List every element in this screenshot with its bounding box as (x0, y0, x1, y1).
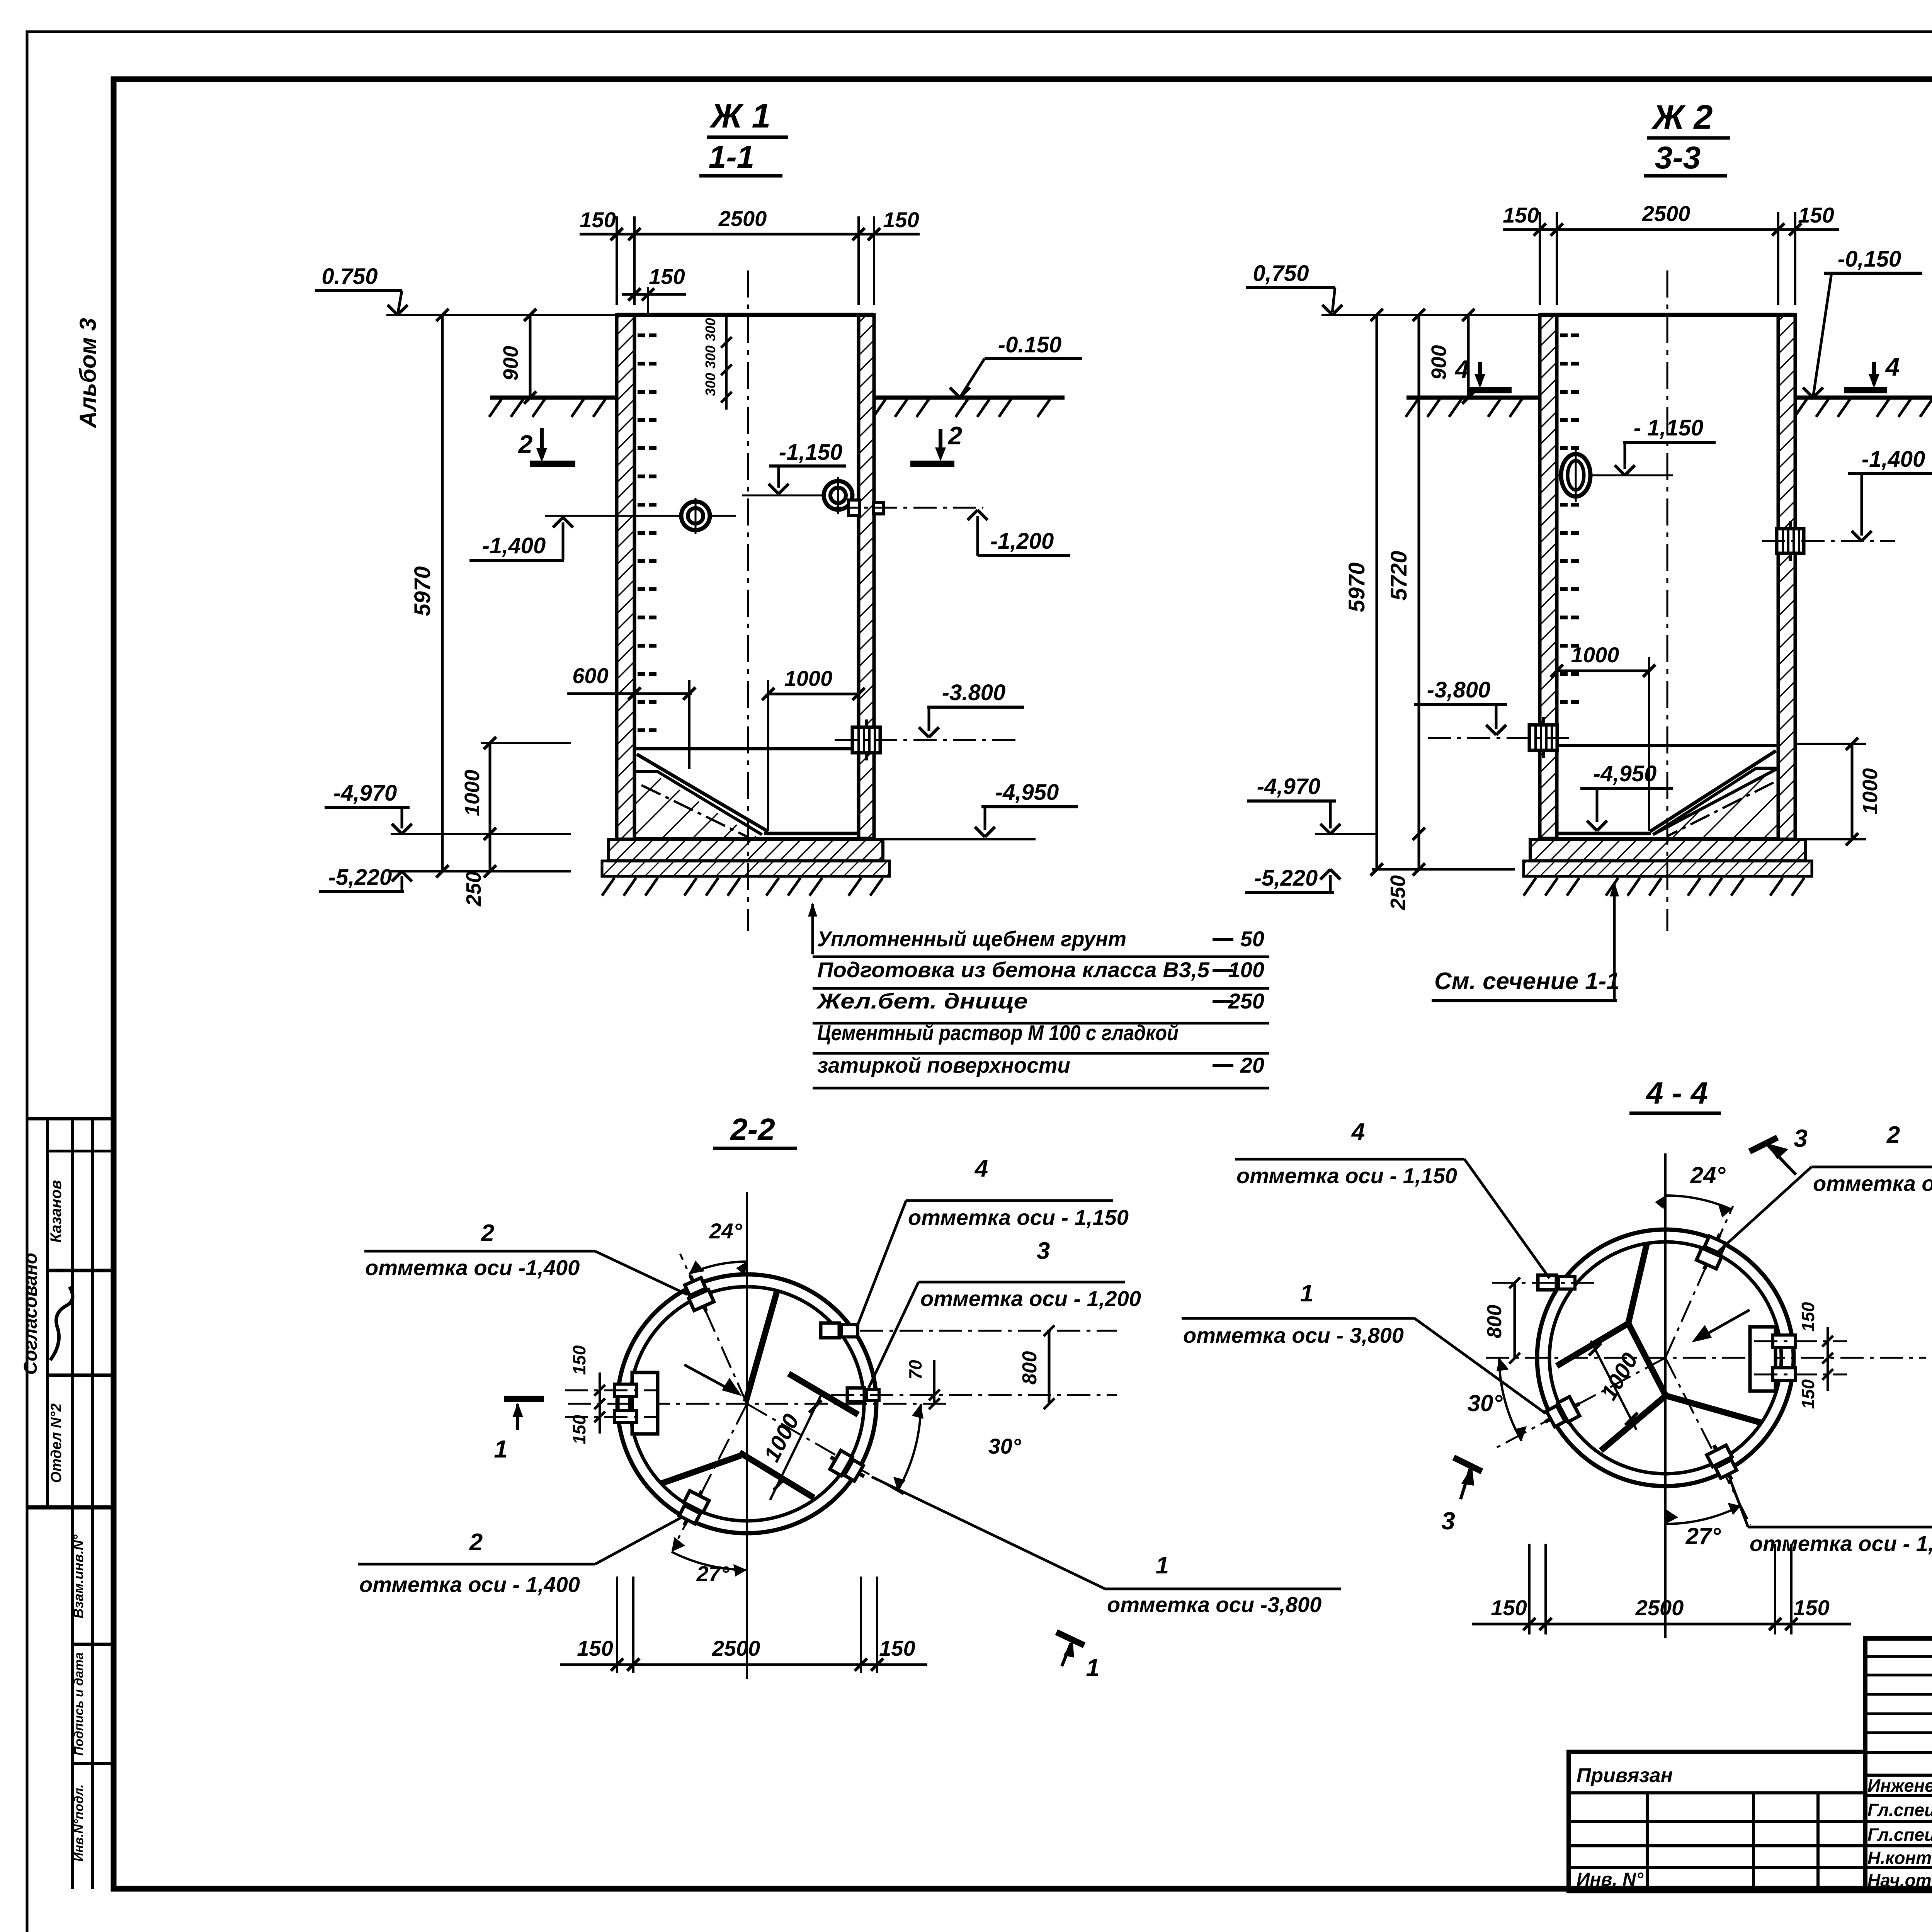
plan 2-2: dims 150/150 at twin pipes (599, 1372, 601, 1434)
svg-text:0.750: 0.750 (321, 264, 378, 289)
svg-text:См. сечение 1-1: См. сечение 1-1 (1434, 968, 1620, 995)
section Ж1: centre axis (747, 270, 749, 931)
svg-text:Согласовано: Согласовано (20, 1253, 41, 1375)
svg-text:- 1,150: - 1,150 (1634, 415, 1704, 440)
section Ж1: level -4,970 (391, 833, 571, 835)
svg-text:800: 800 (1019, 1351, 1041, 1385)
section Ж2: wall sleeve at -3.800 (pos 1, left wall) (1529, 725, 1557, 750)
section Ж2: ground lines and soil hatch (1406, 396, 1540, 400)
svg-text:Цементный раствор М 100 с глад: Цементный раствор М 100 с гладкой (817, 1020, 1179, 1045)
svg-text:Инв. N°: Инв. N° (1577, 1869, 1644, 1890)
svg-text:Подпись и дата: Подпись и дата (71, 1652, 86, 1756)
svg-text:2: 2 (481, 1220, 494, 1247)
svg-text:4: 4 (1351, 1119, 1365, 1145)
svg-text:-1,400: -1,400 (1862, 447, 1925, 472)
svg-text:27°: 27° (1685, 1523, 1721, 1549)
section Ж1: pipe right (-1.150) (742, 495, 854, 497)
plan 2-2: partitions (thick) (746, 1291, 777, 1402)
svg-text:затиркой поверхности: затиркой поверхности (817, 1053, 1070, 1077)
plan 2-2: bottom width dim 150-2500-150 (616, 1577, 618, 1673)
section Ж1: sludge slope double line (637, 754, 768, 832)
svg-text:отметка оси - 3,800: отметка оси - 3,800 (1183, 1323, 1404, 1347)
section Ж1: concrete preparation band (602, 861, 889, 876)
svg-text:2500: 2500 (712, 1636, 760, 1660)
svg-text:4: 4 (1885, 352, 1900, 381)
svg-text:Подготовка из бетона класса В3: Подготовка из бетона класса В3,5 (817, 957, 1210, 982)
svg-text:24°: 24° (709, 1219, 742, 1243)
plan 4-4: tank ring walls (1537, 1230, 1794, 1486)
svg-text:Взам.инв.N°: Взам.инв.N° (70, 1534, 86, 1619)
svg-text:-4,950: -4,950 (1593, 761, 1656, 786)
svg-text:-5,220: -5,220 (1254, 866, 1318, 891)
svg-text:300: 300 (702, 345, 718, 369)
plan 4-4: radial axes (dash-dot) (1665, 1206, 1733, 1358)
svg-text:5970: 5970 (1344, 562, 1369, 612)
plan 2-2: section mark 1 (left) (504, 1396, 544, 1402)
plan 2-2: section mark 1 (bottom right) (1056, 1632, 1084, 1645)
section Ж2: plaster dashes on inner wall face (1560, 333, 1568, 337)
svg-text:800: 800 (1483, 1305, 1506, 1338)
svg-text:0,750: 0,750 (1253, 261, 1309, 286)
plan 2-2: angle arc 24 (689, 1262, 747, 1274)
plan 4-4: dims 150/150 at twin pipes (1827, 1327, 1829, 1391)
plan 4-4: centre lines (1664, 1153, 1667, 1638)
plan 4-4: dim 800 (1514, 1283, 1516, 1358)
section Ж1: level mark 0.750 (left, top rim) (386, 314, 617, 316)
svg-text:Нач.отд.: Нач.отд. (1867, 1870, 1932, 1890)
section Ж1: wall sleeve at -1.200 (pos 3) (849, 500, 859, 515)
svg-text:Гл.спец.: Гл.спец. (1867, 1800, 1932, 1820)
svg-text:-0.150: -0.150 (998, 332, 1061, 357)
svg-text:250: 250 (1228, 989, 1264, 1013)
svg-text:300: 300 (702, 373, 718, 396)
svg-text:-4,950: -4,950 (995, 780, 1059, 805)
svg-text:1: 1 (494, 1435, 508, 1463)
svg-text:150: 150 (580, 207, 616, 232)
svg-text:-5,220: -5,220 (328, 865, 392, 890)
section Ж1: leader to materials list (811, 904, 814, 954)
section Ж1: bottom slab (hatched) (609, 839, 883, 861)
svg-text:1000: 1000 (1571, 643, 1619, 667)
svg-text:1: 1 (1086, 1654, 1100, 1682)
section Ж2: trough top line (1557, 744, 1778, 747)
plan 2-2: tank ring walls (617, 1274, 876, 1533)
svg-text:2500: 2500 (718, 206, 767, 231)
section Ж2: dim 1000 (trough depth, right) (1795, 743, 1866, 745)
svg-text:150: 150 (649, 264, 685, 289)
svg-text:150: 150 (883, 207, 919, 232)
svg-text:1000: 1000 (784, 666, 833, 690)
svg-text:150: 150 (569, 1415, 589, 1444)
svg-text:Отдел N°2: Отдел N°2 (48, 1403, 65, 1483)
section Ж1: top rim line (617, 313, 874, 317)
svg-text:2-2: 2-2 (730, 1112, 775, 1146)
section Ж1: overall dim 5970 (441, 315, 444, 871)
svg-text:2: 2 (1886, 1122, 1900, 1148)
svg-text:150: 150 (1798, 1302, 1818, 1332)
plan 2-2: flow arrow (684, 1365, 734, 1392)
svg-text:250: 250 (1386, 875, 1410, 910)
svg-text:150: 150 (569, 1345, 589, 1375)
section Ж2: level mark 0,750 (1321, 314, 1540, 316)
svg-text:отметка оси - 1,400: отметка оси - 1,400 (359, 1572, 580, 1597)
svg-text:отметка оси - 1,200: отметка оси - 1,200 (920, 1286, 1141, 1311)
svg-text:Гл.спец.: Гл.спец. (1867, 1825, 1932, 1845)
svg-text:3: 3 (1794, 1124, 1808, 1152)
svg-text:3: 3 (1037, 1238, 1050, 1264)
section Ж2: dim 900 (1467, 315, 1470, 398)
title block: left attachment table (1569, 1752, 1865, 1891)
svg-text:-1,400: -1,400 (482, 533, 546, 558)
svg-text:150: 150 (879, 1636, 915, 1660)
plan 2-2: radial sleeves pos2 / pos2b / pos1 (680, 1271, 716, 1315)
svg-text:150: 150 (577, 1636, 613, 1660)
svg-text:900: 900 (499, 346, 522, 381)
margin strip labels (72, 1643, 114, 1646)
plan 2-2: central channel walls (789, 1374, 858, 1415)
section Ж1: wall sleeve at -3.800 (pos 1) (852, 727, 880, 753)
section Ж1: level -5,220 (391, 870, 571, 872)
section Ж2: level -4,970 (1315, 833, 1377, 835)
section Ж2: sludge slope double line (mirrored) (1650, 751, 1776, 832)
section Ж1: dim 900 (rim to ground) (529, 315, 532, 398)
section Ж2: concrete wedge (hatched) (1657, 773, 1778, 838)
svg-text:Инв.N°подл.: Инв.N°подл. (71, 1784, 86, 1862)
plan 4-4: angle arc 30 (1499, 1358, 1522, 1441)
section Ж2: top width dimension 150-2500-150 (1539, 212, 1541, 305)
plan 2-2: dim 1000 across channel (770, 1393, 822, 1500)
plan 4-4: section mark 3 (top right) (1750, 1138, 1777, 1151)
section Ж2: bottom slab (hatched) (1530, 839, 1805, 861)
section Ж2: tank walls (hatched) (1540, 315, 1557, 838)
svg-text:24°: 24° (1690, 1162, 1726, 1188)
svg-text:-4,970: -4,970 (1257, 774, 1320, 799)
section Ж1: dim chain 300x3 (725, 315, 728, 410)
plan 2-2: radial axes (dash-dot) (680, 1254, 747, 1404)
svg-text:5720: 5720 (1386, 551, 1412, 600)
svg-text:-4,970: -4,970 (333, 781, 397, 806)
plan 4-4: radial sleeves pos2 / pos2b / pos1 (1694, 1230, 1730, 1274)
svg-text:Ж 2: Ж 2 (1651, 98, 1713, 136)
plan 2-2: dim 800 (1048, 1331, 1051, 1404)
svg-text:Ж 1: Ж 1 (709, 97, 771, 135)
svg-text:70: 70 (905, 1360, 925, 1380)
svg-text:Казанов: Казанов (48, 1180, 65, 1243)
plan 4-4: bottom width dim 150-2500-150 (1528, 1544, 1531, 1634)
svg-text:150: 150 (1798, 203, 1834, 227)
section Ж2: top rim line (1540, 313, 1795, 317)
svg-text:Инженер: Инженер (1867, 1776, 1932, 1796)
svg-text:150: 150 (1793, 1595, 1829, 1620)
plan 2-2: angle arc 30 (898, 1404, 921, 1491)
section Ж1: inlet pipe left (-1.400) (545, 515, 736, 517)
svg-text:2: 2 (947, 421, 963, 450)
section Ж2: leader "См. сечение 1-1" (1613, 883, 1616, 1001)
section Ж1: dim 1000 (trough depth) + 250 (489, 743, 492, 871)
svg-text:отметка оси - 1,400: отметка оси - 1,400 (1813, 1171, 1932, 1196)
svg-text:-0,150: -0,150 (1838, 247, 1901, 272)
svg-text:30°: 30° (988, 1434, 1021, 1458)
section Ж2: overall dims 5970 and 5720 (1376, 315, 1378, 869)
plan 2-2: sleeve pos4 (upper right, -1.150) (821, 1323, 839, 1338)
plan 2-2: angle arc 27 (672, 1552, 747, 1570)
svg-text:50: 50 (1240, 927, 1264, 951)
svg-text:150: 150 (1798, 1379, 1818, 1409)
section Ж1: top width dimension 150-2500-150 (616, 216, 618, 305)
svg-text:Жел.бет. днище: Жел.бет. днище (816, 989, 1028, 1013)
svg-text:600: 600 (572, 663, 608, 688)
svg-text:1000: 1000 (461, 770, 484, 816)
section Ж2: concrete preparation band (1524, 861, 1812, 876)
svg-text:отметка оси -1,400: отметка оси -1,400 (365, 1255, 580, 1280)
svg-text:1-1: 1-1 (709, 139, 755, 175)
plan 2-2: sleeve pos3 (right, -1.200) (847, 1388, 864, 1402)
section Ж1: ground lines and soil hatch (490, 396, 617, 400)
svg-text:20: 20 (1240, 1053, 1264, 1077)
section Ж2: inlet pipe (oval, -1.150) (1558, 474, 1673, 476)
plan 4-4: partitions (thick) (1628, 1243, 1647, 1323)
section Ж2: level -5,220 (1372, 868, 1515, 871)
plan 2-2: dim 70 (933, 1360, 935, 1404)
svg-text:3-3: 3-3 (1655, 140, 1701, 175)
svg-text:отметка оси -3,800: отметка оси -3,800 (1107, 1592, 1321, 1617)
svg-text:отметка оси - 1,400: отметка оси - 1,400 (1750, 1531, 1932, 1556)
svg-text:2500: 2500 (1642, 201, 1690, 226)
svg-text:1000: 1000 (1859, 768, 1882, 815)
section Ж2: wall sleeve at -1.400 (1777, 529, 1804, 553)
svg-text:3: 3 (1441, 1507, 1455, 1535)
section Ж1: tank walls (hatched) (617, 315, 634, 839)
section Ж2: tank floor double line (1557, 832, 1651, 835)
svg-text:Н.контр.: Н.контр. (1867, 1848, 1932, 1868)
svg-text:2: 2 (518, 430, 533, 458)
svg-text:2500: 2500 (1635, 1595, 1684, 1620)
section Ж1: dim 1000 (floor width) (768, 693, 859, 696)
svg-text:Привязан: Привязан (1577, 1764, 1673, 1787)
section Ж2: dim 1000 (floor width) (1557, 670, 1649, 672)
svg-text:-3,800: -3,800 (1427, 677, 1490, 702)
svg-text:1: 1 (1300, 1280, 1313, 1307)
svg-text:-3.800: -3.800 (942, 680, 1005, 705)
svg-text:-1,150: -1,150 (779, 440, 842, 465)
svg-text:Альбом 3: Альбом 3 (75, 318, 101, 429)
svg-text:300: 300 (702, 318, 718, 341)
section Ж2: centre axis (1667, 270, 1668, 931)
svg-text:4: 4 (1454, 355, 1469, 383)
svg-text:-1,200: -1,200 (990, 529, 1054, 554)
plan 4-4: central channel walls (1557, 1323, 1628, 1366)
plan 4-4: angle arc 24 (1665, 1196, 1731, 1209)
svg-text:27°: 27° (696, 1561, 730, 1586)
title block: signature table (1865, 1638, 1932, 1891)
plan 4-4: dim 1000 across channel (1591, 1341, 1636, 1430)
plan 4-4: sleeve pos4 (upper left, -1.150) (1538, 1275, 1556, 1290)
section Ж1: plaster dashes on inner wall face (638, 333, 645, 337)
section Ж1: trough top line (634, 747, 859, 750)
svg-text:30°: 30° (1468, 1390, 1503, 1416)
section Ж1: concrete wedge (hatched) (634, 776, 758, 838)
plan 4-4: flow arrow (1700, 1310, 1750, 1338)
svg-text:100: 100 (1228, 957, 1264, 982)
plan 2-2: centre lines (746, 1192, 748, 1679)
svg-text:4 - 4: 4 - 4 (1645, 1076, 1708, 1110)
plan 4-4: section mark 3 (bottom left) (1454, 1458, 1482, 1471)
plan 4-4: twin pipe bracket (right) (1750, 1327, 1776, 1391)
svg-text:отметка оси - 1,150: отметка оси - 1,150 (1236, 1163, 1457, 1188)
svg-text:Уплотненный щебнем грунт: Уплотненный щебнем грунт (817, 927, 1126, 951)
svg-text:900: 900 (1427, 345, 1451, 380)
plan 2-2: twin pipe bracket (left) (632, 1372, 658, 1434)
section Ж1: soil below foundation (602, 878, 614, 896)
svg-text:5970: 5970 (410, 566, 435, 616)
svg-text:отметка оси - 1,150: отметка оси - 1,150 (908, 1205, 1129, 1230)
svg-text:150: 150 (1503, 203, 1539, 227)
svg-text:2: 2 (469, 1529, 483, 1556)
svg-text:150: 150 (1491, 1595, 1527, 1620)
plan 4-4: angle arc 27 (1665, 1506, 1741, 1524)
svg-text:250: 250 (462, 871, 485, 906)
svg-text:1: 1 (1156, 1552, 1169, 1579)
section Ж2: soil below foundation (1524, 878, 1536, 896)
section Ж1: tank floor double line (764, 832, 859, 835)
svg-text:4: 4 (974, 1155, 988, 1182)
